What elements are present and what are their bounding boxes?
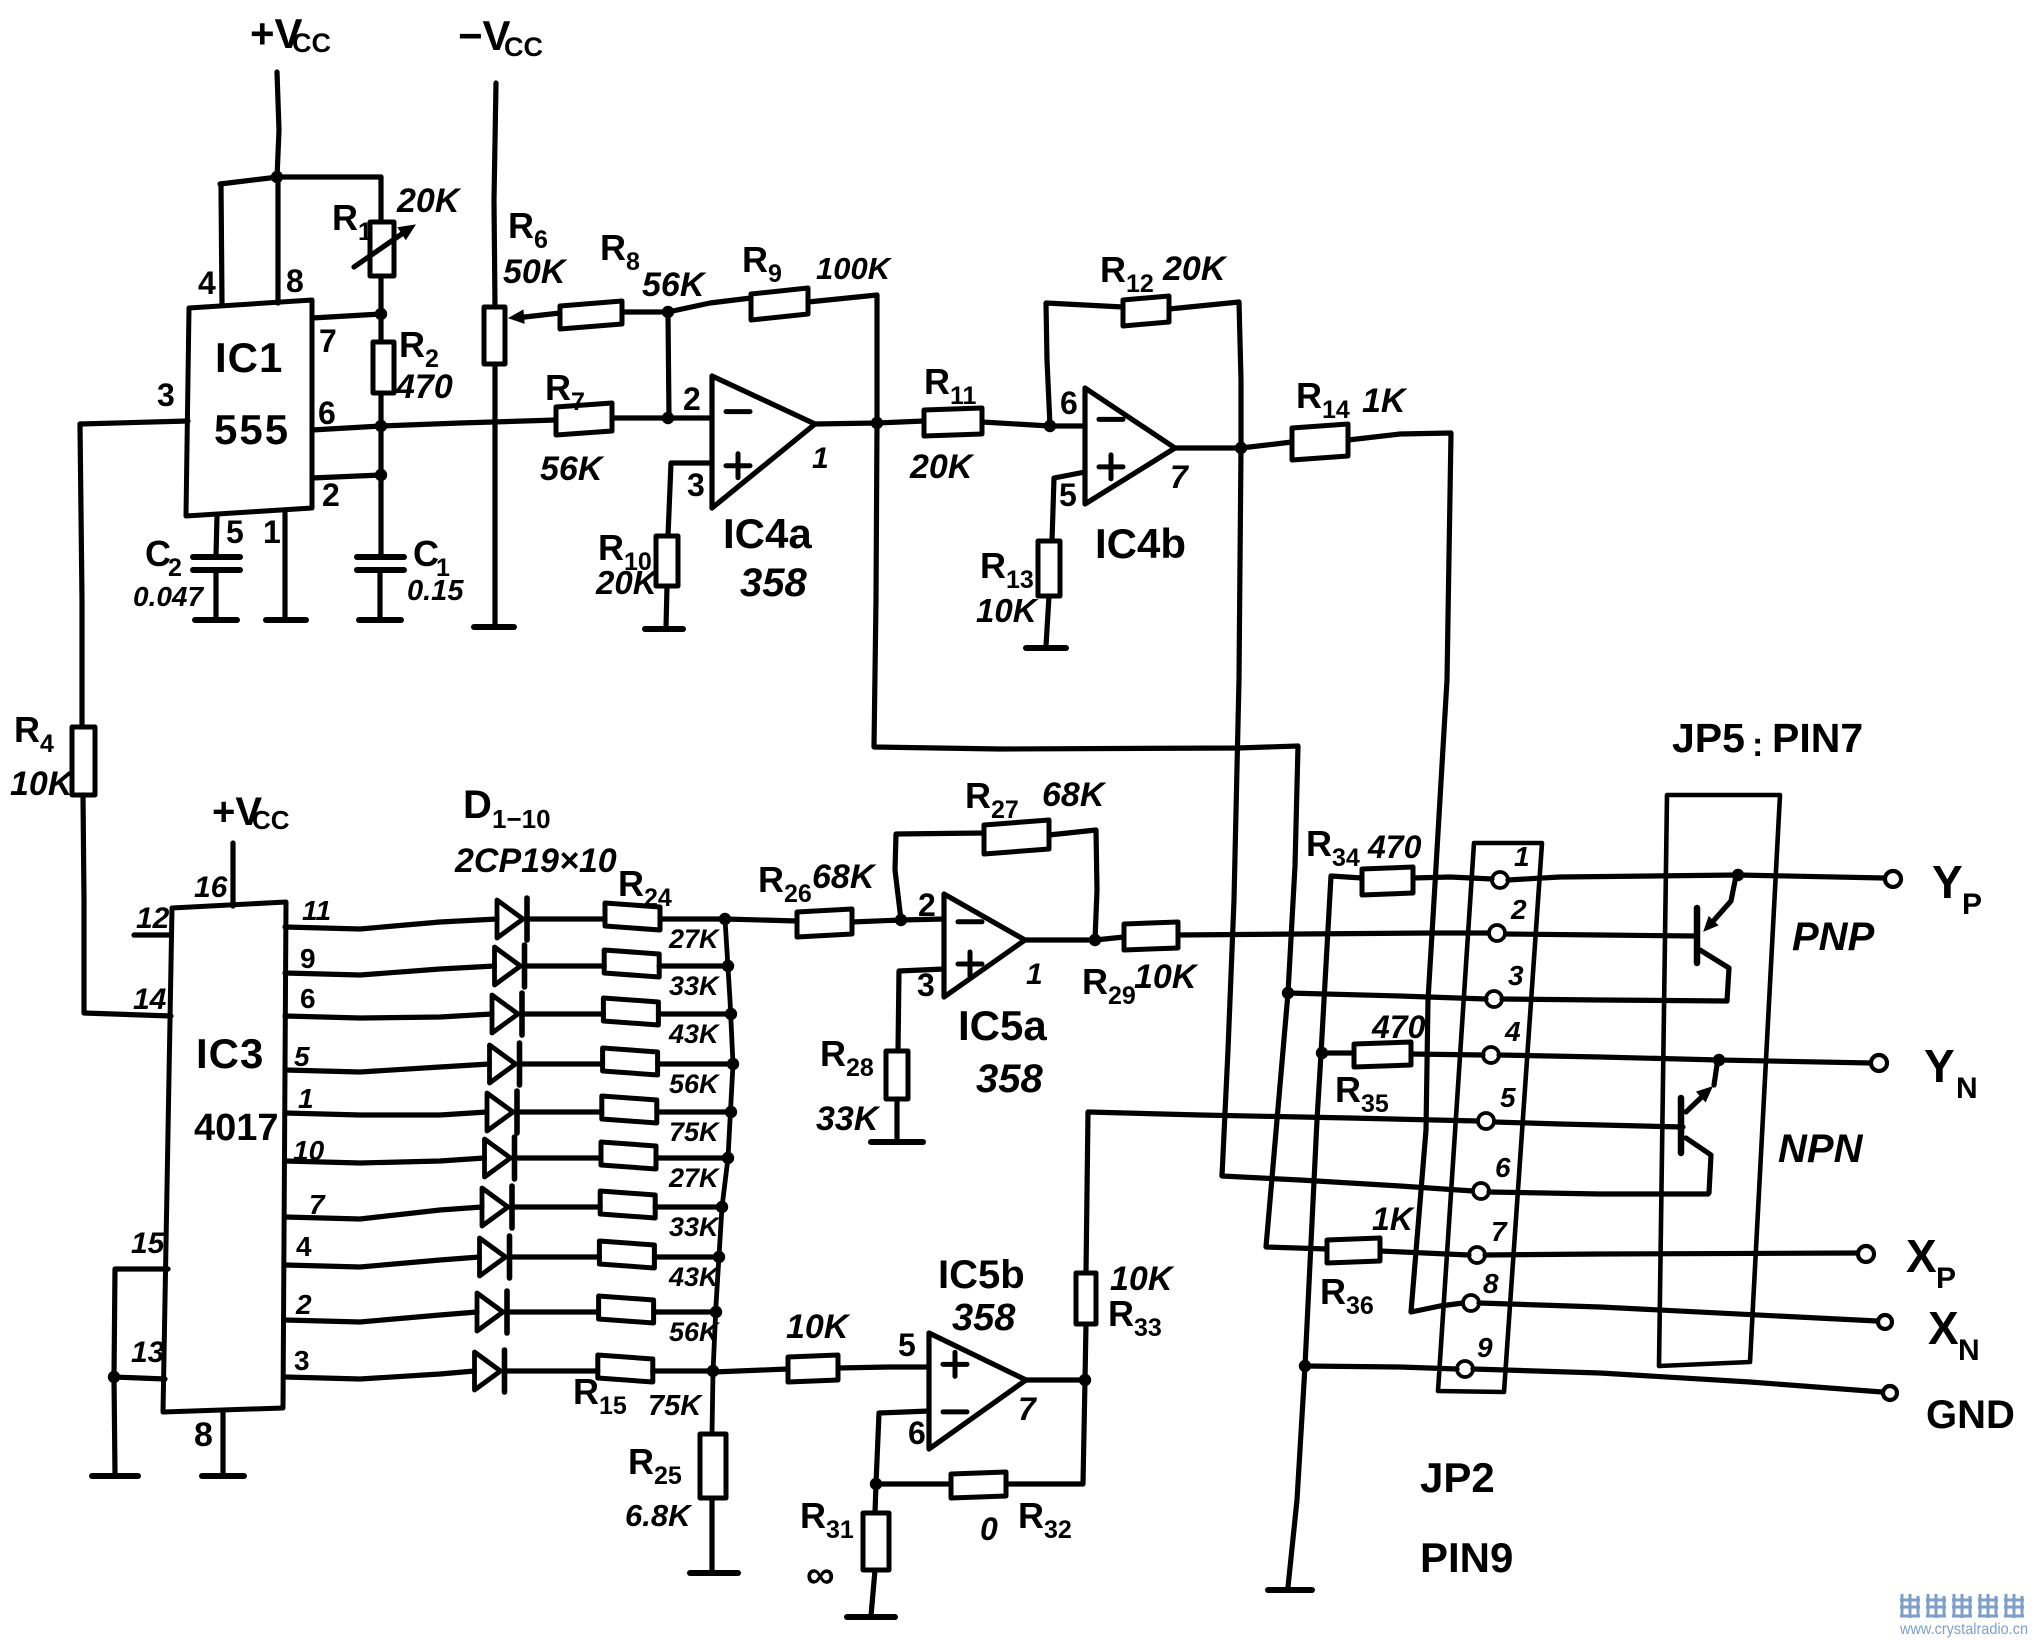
svg-text:0: 0 <box>980 1511 998 1547</box>
wire JP2 pin4 line to Yn terminal <box>1499 1055 1871 1063</box>
svg-text:IC5a: IC5a <box>958 1002 1047 1049</box>
wire IC3 pin8 to ground <box>220 1412 225 1474</box>
resistor ladder row 4 value 56K <box>603 1048 658 1075</box>
junction bus row 10 <box>707 1365 719 1377</box>
svg-text:0.047: 0.047 <box>133 581 204 612</box>
svg-text:33K: 33K <box>669 971 721 1001</box>
svg-text:2: 2 <box>918 887 936 923</box>
svg-text:6: 6 <box>908 1415 926 1451</box>
resistor ladder row 2 value 33K <box>604 950 659 977</box>
wire D5 to resistor <box>517 1109 602 1114</box>
wire 10K to IC5b non-inverting input <box>838 1367 929 1368</box>
svg-text:IC4b: IC4b <box>1095 520 1186 567</box>
svg-text:12: 12 <box>136 902 170 935</box>
resistor ladder row 10 value 75K <box>598 1355 653 1382</box>
transistor NPN <box>1678 1098 1685 1153</box>
wire IC4b non-inverting input to R13 <box>1052 472 1085 541</box>
wire R31 leads <box>875 1484 876 1513</box>
diode D1 <box>497 900 523 938</box>
wire pin8 of IC1 <box>275 177 280 303</box>
JP2 pin 9 circle <box>1457 1361 1473 1377</box>
svg-text:56K: 56K <box>540 450 605 488</box>
ground pin1 IC1 <box>266 617 306 623</box>
terminal Xn <box>1878 1315 1892 1329</box>
svg-text:1: 1 <box>812 442 829 475</box>
JP2 pin 1 circle <box>1492 872 1508 888</box>
resistor ladder row 1 value 27K <box>605 903 660 930</box>
resistor R28 33K <box>886 1051 908 1099</box>
ground IC3 pin8 <box>202 1473 244 1479</box>
svg-text:2: 2 <box>295 1289 312 1320</box>
wire R11 to IC4b inverting input <box>982 422 1085 426</box>
wire R4 to IC3 pin14 <box>83 795 171 1016</box>
junction bus row 4 <box>727 1058 739 1070</box>
svg-text:470: 470 <box>395 368 453 406</box>
svg-text:6: 6 <box>318 395 336 431</box>
wire junction down to ground <box>114 1377 115 1474</box>
diode D7 <box>482 1188 508 1226</box>
wiper arrow of R6 from R8 <box>516 313 560 318</box>
svg-text:56K: 56K <box>669 1069 721 1099</box>
junction IC4b pin6 node <box>1044 420 1056 432</box>
wire R35 left lead <box>1322 1050 1354 1055</box>
svg-text:5: 5 <box>294 1041 310 1072</box>
svg-text:NPN: NPN <box>1778 1127 1864 1171</box>
svg-text:3: 3 <box>1508 960 1524 991</box>
svg-text:15: 15 <box>131 1227 166 1260</box>
wire JP2 pin7 line to Xp terminal <box>1485 1253 1858 1255</box>
wire IC3 pin15 to pin13 to ground <box>114 1269 168 1377</box>
svg-text:1−10: 1−10 <box>492 804 551 834</box>
JP2 pin 3 circle <box>1486 991 1502 1007</box>
wire R13 to ground <box>1046 596 1049 646</box>
svg-text:4: 4 <box>1504 1016 1521 1047</box>
ground R28 <box>871 1139 923 1145</box>
svg-text:6: 6 <box>300 983 316 1014</box>
svg-text:16: 16 <box>194 871 228 904</box>
svg-text:IC1: IC1 <box>215 334 283 381</box>
ground right rail <box>1268 1587 1312 1593</box>
svg-text:1K: 1K <box>1362 382 1408 420</box>
resistor ladder row 3 value 43K <box>603 998 658 1025</box>
svg-text:68K: 68K <box>1042 776 1107 814</box>
svg-text:3: 3 <box>294 1345 310 1376</box>
svg-text:X: X <box>1928 1302 1959 1354</box>
junction bus row 1 <box>719 913 731 925</box>
resistor R27 68K feedback <box>984 820 1049 854</box>
wire IC4a non-inverting input to R10 <box>668 463 712 536</box>
wire IC3 pin12 stub <box>134 932 171 937</box>
svg-text:1: 1 <box>1514 841 1530 872</box>
wire IC3 output row 5 <box>285 1112 487 1115</box>
svg-text:CC: CC <box>292 28 331 58</box>
terminal Yn <box>1871 1055 1887 1071</box>
terminal Xp <box>1858 1246 1874 1262</box>
diode D6 <box>485 1139 511 1177</box>
wire R7 to IC4a inverting input <box>612 415 712 420</box>
svg-text:5: 5 <box>1059 477 1077 513</box>
junction IC4b output <box>1235 442 1247 454</box>
junction GND rail to pin9 line <box>1299 1360 1311 1372</box>
svg-text:PIN7: PIN7 <box>1772 715 1863 761</box>
IC IC3 4017 box <box>163 902 286 1412</box>
junction bus row 8 <box>713 1251 725 1263</box>
svg-text:13: 13 <box>131 1336 165 1369</box>
svg-text:3: 3 <box>157 377 175 413</box>
wire IC5b inverting input loop to R32 <box>876 1411 929 1484</box>
svg-text:Y: Y <box>1924 1040 1955 1092</box>
junction bus row 6 <box>722 1152 734 1164</box>
resistor R25 6.8K <box>700 1434 726 1498</box>
wire IC3 output row 3 <box>285 1014 492 1018</box>
junction NPN top on Yn line <box>1713 1054 1725 1066</box>
svg-text:358: 358 <box>740 561 807 605</box>
junction top rail <box>271 171 283 183</box>
JP2 pin 2 circle <box>1489 925 1505 941</box>
wire IC5a non-inverting input to R28 <box>898 969 944 1051</box>
resistor ladder row 9 value 56K <box>599 1296 654 1323</box>
wire GND line to JP2 pin9 and GND terminal <box>1305 1366 1457 1369</box>
svg-text:7: 7 <box>1491 1216 1508 1247</box>
transistor PNP <box>1694 908 1701 963</box>
svg-text:Y: Y <box>1932 856 1963 908</box>
capacitor C1 0.15 <box>378 475 383 556</box>
svg-text:5: 5 <box>226 514 244 550</box>
JP2 pin 4 circle <box>1483 1047 1499 1063</box>
wire R36 to JP2 pin7 <box>1380 1251 1469 1255</box>
resistor R2 470 <box>373 342 394 393</box>
wire IC3 output row 7 <box>285 1207 482 1219</box>
svg-text:4: 4 <box>198 265 216 301</box>
wire IC5b output <box>1026 1377 1085 1382</box>
wire -Vcc rail down through R6 to ground <box>494 83 496 307</box>
JP2 pin 7 circle <box>1469 1247 1485 1263</box>
svg-text:9: 9 <box>300 943 316 974</box>
wire IC3 output row 8 <box>285 1257 480 1267</box>
svg-text:8: 8 <box>1483 1268 1499 1299</box>
wire R9 left lead to junction <box>668 298 751 312</box>
svg-text:7: 7 <box>319 323 337 359</box>
diode D10 <box>475 1352 501 1390</box>
wire IC4b output long drop to JP2 pin6 line <box>1222 448 1473 1191</box>
wire D1 to resistor <box>527 916 605 921</box>
svg-text:JP5: JP5 <box>1672 715 1745 761</box>
wire feedback loop around R27 <box>895 833 984 920</box>
svg-text:9: 9 <box>1477 1332 1493 1363</box>
svg-text:10K: 10K <box>786 1308 851 1346</box>
junction R7/IC4a pin2 <box>662 412 674 424</box>
svg-text:P: P <box>1936 1262 1956 1295</box>
svg-text:CC: CC <box>252 805 290 835</box>
svg-text:555: 555 <box>214 406 290 453</box>
wire R34 left lead with drop to ground rail <box>1288 876 1362 1587</box>
wire IC3 output row 2 <box>285 966 495 975</box>
svg-text:∞: ∞ <box>806 1553 835 1597</box>
svg-text:GND: GND <box>1926 1393 2015 1437</box>
svg-text:8: 8 <box>194 1416 213 1454</box>
resistor R29 10K <box>1124 922 1178 950</box>
svg-text:470: 470 <box>1367 829 1422 865</box>
wire pin6 of IC1 to signal line <box>312 426 381 430</box>
svg-text:6: 6 <box>1060 385 1078 421</box>
svg-text:7: 7 <box>1018 1391 1038 1427</box>
diode D9 <box>477 1293 503 1331</box>
resistor R12 20K feedback <box>1123 296 1169 326</box>
wire pin1 of IC1 to ground <box>282 513 287 619</box>
diode D2 <box>495 947 521 985</box>
resistor ladder row 8 value 43K <box>599 1241 654 1268</box>
ground -Vcc rail <box>474 624 514 630</box>
svg-text:2: 2 <box>683 381 701 417</box>
svg-text:10K: 10K <box>1134 958 1199 996</box>
wire pin2 of IC1 <box>312 475 381 478</box>
potentiometer R6 50K <box>484 307 505 364</box>
wire IC4a output to R11 <box>815 423 877 424</box>
op-amp IC4b 358 <box>1085 388 1175 504</box>
wire IC5a output to R29 <box>1025 937 1124 940</box>
svg-text:2: 2 <box>322 477 340 513</box>
wire JP2 pin3 line from IC4a route to PNP collector <box>1288 993 1486 999</box>
svg-text:20K: 20K <box>1162 250 1228 288</box>
junction pin6/R2/C1 node <box>375 420 387 432</box>
op-amp IC5b 358 <box>929 1333 1026 1449</box>
ground C1 <box>359 617 401 623</box>
svg-text:14: 14 <box>133 983 167 1016</box>
wire +Vcc to IC3 pin16 <box>230 843 235 906</box>
resistor R4 10K <box>72 727 95 795</box>
resistor R33 10K <box>1076 1273 1096 1324</box>
svg-text:11: 11 <box>302 895 331 926</box>
resistor ladder row 6 value 27K <box>601 1142 656 1169</box>
svg-text:N: N <box>1956 1072 1978 1105</box>
resistor R7 56K <box>556 403 612 435</box>
wire D8 to resistor <box>510 1254 600 1259</box>
svg-text:5: 5 <box>898 1327 916 1363</box>
op-amp IC5a 358 <box>944 894 1025 997</box>
diode D8 <box>480 1238 506 1276</box>
diode D3 <box>492 995 518 1033</box>
wire D9 to resistor <box>507 1309 599 1314</box>
wire JP2 pin6 line into NPN <box>1489 1192 1708 1194</box>
resistor R35 470 <box>1354 1042 1411 1067</box>
wire +Vcc down to rail junction <box>277 72 279 178</box>
svg-text:1: 1 <box>298 1083 314 1114</box>
junction bus row 5 <box>725 1106 737 1118</box>
resistor R9 100K <box>751 288 808 320</box>
junction bus row 9 <box>710 1306 722 1318</box>
wire pin3 of IC1 to left rail <box>80 421 188 424</box>
svg-text:56K: 56K <box>642 266 707 304</box>
wire R33 bottom to IC5b output junction <box>1085 1324 1086 1380</box>
svg-text:PNP: PNP <box>1792 915 1875 959</box>
junction R31/R32 node <box>870 1478 882 1490</box>
svg-text:1: 1 <box>1026 958 1043 991</box>
JP2 pin 6 circle <box>1473 1183 1489 1199</box>
resistor R11 20K <box>924 408 982 436</box>
svg-text:−V: −V <box>458 12 511 59</box>
junction pin3 route <box>1282 987 1294 999</box>
wire R10 to ground <box>666 586 667 628</box>
svg-text:33K: 33K <box>669 1212 721 1242</box>
wire pin7 of IC1 to R1/R2 junction <box>312 314 381 318</box>
svg-text:75K: 75K <box>648 1390 703 1422</box>
svg-text:D: D <box>463 783 492 827</box>
resistor R31 infinite <box>863 1513 889 1570</box>
svg-text:6: 6 <box>1495 1152 1511 1183</box>
wire IC3 output row 9 <box>285 1312 477 1322</box>
wire IC4b output to R14 <box>1175 442 1292 448</box>
wire R9 right lead to output node <box>808 295 877 423</box>
wire D3 to resistor <box>522 1011 603 1016</box>
wire R2 bottom to C1 top <box>378 426 383 475</box>
svg-text::: : <box>1752 726 1763 764</box>
svg-text:6.8K: 6.8K <box>625 1498 693 1533</box>
svg-text:2CP19×10: 2CP19×10 <box>454 842 617 880</box>
wire pin13 stub <box>114 1377 165 1379</box>
svg-text:1K: 1K <box>1372 1201 1416 1237</box>
svg-text:JP2: JP2 <box>1420 1454 1495 1501</box>
svg-text:358: 358 <box>952 1297 1016 1339</box>
wire R25 to ground <box>709 1498 714 1570</box>
svg-text:PIN9: PIN9 <box>1420 1534 1513 1581</box>
wire R33 top to JP2 pin5 line <box>1086 1112 1478 1273</box>
resistor R36 1K <box>1327 1238 1380 1263</box>
junction pin7/R1/R2 <box>375 308 387 320</box>
svg-text:0.15: 0.15 <box>407 575 464 607</box>
wire feedback loop pin6 up over R12 to output <box>1046 303 1123 426</box>
svg-text:5: 5 <box>1500 1082 1516 1113</box>
ground R13 <box>1026 645 1066 651</box>
wire junction down to inverting input node <box>668 312 669 418</box>
junction bus row 3 <box>725 1008 737 1020</box>
ground R10 <box>645 626 683 632</box>
svg-text:27K: 27K <box>668 924 721 954</box>
resistor R30 10K input of IC5b <box>788 1355 838 1382</box>
wire D4 to resistor <box>520 1061 603 1066</box>
wire IC3 output row 1 <box>285 919 497 929</box>
resistor R32 0 feedback <box>951 1472 1006 1498</box>
wire top rail pin4/pin8/R1 <box>220 177 381 184</box>
wire IC3 output row 6 <box>285 1158 485 1163</box>
junction IC5a pin2 <box>895 914 907 926</box>
wire IC3 output row 4 <box>285 1064 490 1072</box>
wire summing bus vertical <box>712 919 733 1434</box>
wire bus junction to 10K input resistor <box>713 1369 788 1372</box>
wire R34 to JP2 pin1 <box>1413 877 1492 879</box>
svg-text:IC4a: IC4a <box>723 510 812 557</box>
potentiometer R1 20K <box>370 222 394 276</box>
svg-text:IC5b: IC5b <box>938 1253 1025 1297</box>
wire D2 to resistor <box>525 963 605 968</box>
wire R29 to JP2 pin2 and PNP base <box>1178 933 1489 935</box>
svg-text:20K: 20K <box>909 448 975 486</box>
wire JP2 pin1 line to Yp terminal <box>1508 875 1884 880</box>
resistor R34 470 <box>1362 867 1413 895</box>
svg-text:CC: CC <box>504 32 543 62</box>
wire R26 to IC5a inverting input <box>852 919 944 922</box>
svg-text:X: X <box>1906 1230 1937 1282</box>
resistor ladder row 5 value 75K <box>602 1096 657 1123</box>
junction R35 on ground rail <box>1316 1047 1328 1059</box>
wire left rail down to R4 <box>80 424 82 727</box>
capacitor C2 0.047 <box>216 516 217 556</box>
ground C2 <box>195 617 237 623</box>
svg-text:27K: 27K <box>668 1163 721 1193</box>
wire bus to R26 <box>725 919 797 921</box>
wire signal line IC1 pin6 to R7 <box>381 420 556 426</box>
svg-text:100K: 100K <box>816 251 893 286</box>
junction bus row 2 <box>722 960 734 972</box>
svg-text:470: 470 <box>1371 1009 1426 1045</box>
svg-text:10K: 10K <box>976 592 1039 629</box>
JP2 pin 5 circle <box>1478 1113 1494 1129</box>
ground IC3 pin15/13 <box>92 1473 138 1479</box>
svg-text:43K: 43K <box>668 1262 721 1292</box>
junction IC5a output <box>1089 934 1101 946</box>
svg-text:3: 3 <box>687 467 705 503</box>
svg-text:2: 2 <box>1510 894 1527 925</box>
wire IC3 output row 10 <box>285 1371 475 1379</box>
junction IC4a output / R9 / down-line <box>871 417 883 429</box>
svg-text:33K: 33K <box>816 1100 881 1138</box>
junction PNP emitter on Yp line <box>1732 869 1744 881</box>
wire IC4a output long route to R36 <box>874 423 1327 1249</box>
svg-text:43K: 43K <box>668 1019 721 1049</box>
resistor R10 20K <box>656 536 678 586</box>
junction pin2/C1 <box>375 469 387 481</box>
resistor R8 56K <box>560 301 622 329</box>
svg-text:www.crystalradio.cn: www.crystalradio.cn <box>1899 1621 2028 1638</box>
wire R28 to ground <box>894 1099 899 1140</box>
svg-text:20K: 20K <box>595 564 659 601</box>
resistor R14 1K <box>1292 424 1348 460</box>
junction IC5b output / R33 <box>1079 1374 1091 1386</box>
wire R35 to JP2 pin4 <box>1411 1054 1483 1055</box>
wire D7 to resistor <box>512 1204 600 1209</box>
svg-text:4017: 4017 <box>194 1107 279 1149</box>
svg-text:7: 7 <box>1170 459 1190 495</box>
terminal Yp <box>1885 871 1901 887</box>
svg-text:20K: 20K <box>396 182 462 220</box>
wire pin4 of IC1 <box>221 184 222 303</box>
wire JP2 pin8 line to Xn terminal <box>1479 1303 1877 1321</box>
svg-text:P: P <box>1962 888 1982 921</box>
op-amp IC4a 358 <box>712 376 815 508</box>
IC IC1 555 timer box <box>186 300 312 516</box>
JP2 pin 8 circle <box>1463 1295 1479 1311</box>
connector JP2 body <box>1438 843 1542 1392</box>
svg-text:8: 8 <box>286 263 304 299</box>
svg-text:N: N <box>1958 1334 1980 1367</box>
resistor ladder row 7 value 33K <box>600 1191 655 1218</box>
svg-text:2: 2 <box>168 554 182 582</box>
ground R25 <box>690 1570 738 1576</box>
svg-text:4: 4 <box>296 1231 312 1262</box>
junction bus row 7 <box>716 1201 728 1213</box>
wire R32 loop to output <box>876 1481 951 1486</box>
wire R8 right to R9 junction <box>622 309 668 314</box>
wire D10 to resistor <box>505 1368 598 1373</box>
diode D4 <box>490 1045 516 1083</box>
diode D5 <box>487 1093 513 1131</box>
ground R31 <box>847 1614 895 1620</box>
svg-text:1: 1 <box>263 514 281 550</box>
terminal GND <box>1883 1386 1897 1400</box>
connector JP5 outline box <box>1659 795 1780 1366</box>
svg-text:IC3: IC3 <box>196 1030 264 1077</box>
watermark site logo <box>1900 1594 1920 1618</box>
svg-text:68K: 68K <box>812 858 877 896</box>
